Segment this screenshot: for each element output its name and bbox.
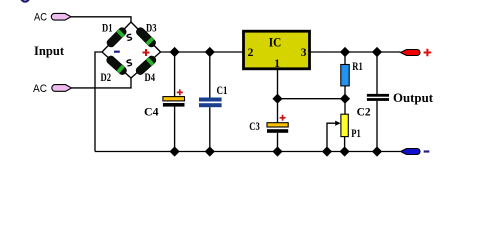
capacitor C1 (blue plates) [199,98,222,108]
wire: junction down to potentiometer P1 [344,99,346,115]
wire: AC bottom terminal to bridge bottom vertex [72,78,132,88]
node: junction P1 bottom rail [340,146,350,156]
plus symbol (bridge positive vertex) [143,49,150,56]
node: junction C3 bottom rail [272,146,282,156]
wire: R1 bottom lead [344,86,346,99]
resistor R1 (blue body) [341,65,349,86]
terminal AC top (pink connector) [51,13,71,20]
wire: P1 wiper to bottom rail [327,123,338,151]
svg-text:D4: D4 [145,72,156,84]
node: junction at C4 top [170,47,180,57]
wire: bridge diamond (D1-D4 arms) [102,22,161,78]
wire: C1 to bottom rail [209,107,211,151]
svg-text:C4: C4 [144,107,159,119]
wire: IC pin 1 down to C3 [277,69,279,123]
diode D4 (body, cathode band toward right vertex) [135,54,158,76]
wire: bridge minus vertex left stub and down to bottom rail [95,52,102,152]
diode D3 (body, cathode band toward right vertex) [135,26,157,48]
node: junction C4 bottom rail [170,146,180,156]
svg-text:D3: D3 [146,23,157,35]
svg-text:AC: AC [33,83,47,95]
potentiometer P1 (yellow body) [341,114,348,136]
plus mark C4 [177,89,183,95]
plus mark C3 [280,115,286,121]
svg-text:D1: D1 [102,23,113,35]
wire: bridge + vertex to IC pin 2 (top rail) [161,51,244,53]
plus mark output [424,49,432,57]
wire: adjust node to IC pin 1 column [278,98,346,100]
terminal output - (blue connector) [401,149,421,155]
node: junction at C1 top [205,47,215,57]
wire: C4 to bottom rail [174,107,176,152]
terminal AC bottom (pink connector) [52,85,72,92]
minus mark output [424,150,430,152]
svg-text:C2: C2 [357,106,371,118]
svg-text:Output: Output [393,91,434,105]
wire: R1 top lead [344,52,346,65]
svg-text:IC: IC [269,35,282,49]
node: junction C2 bottom rail [372,146,382,156]
AC tilde symbol (top, inside bridge) [127,34,132,40]
svg-text:3: 3 [301,47,307,59]
terminal output + (red connector) [401,50,421,56]
diode D1 (body, cathode band toward top vertex) [105,26,127,48]
node: junction R1/P1 [340,94,350,104]
AC tilde symbol (bottom, inside bridge) [127,60,132,66]
svg-text:C1: C1 [217,85,228,97]
wire: C2 to bottom rail [376,101,378,152]
wire: C4 branch down [174,52,176,97]
node: junction C1 bottom rail [205,146,215,156]
wire: bottom rail (0V) [95,151,400,153]
wire: C3 to bottom rail [277,133,279,152]
svg-text:C3: C3 [249,121,260,133]
svg-text:AC: AC [34,11,47,23]
node: junction wiper bottom rail [322,146,332,156]
capacitor C3 (electrolytic, + top plate) [267,123,288,133]
diode D2 (body, cathode band toward bottom vertex) [105,54,128,76]
svg-text:D2: D2 [101,72,112,84]
svg-text:Input: Input [34,44,65,58]
wire: C1 branch down [209,52,211,98]
IC U1 (voltage regulator box) [244,31,310,69]
svg-text:R1: R1 [352,61,363,73]
svg-text:1: 1 [274,58,280,70]
logo arc (top-left partial circle) [21,0,29,2]
node: junction at C2 top [372,47,382,57]
wiper arrowhead [335,121,341,126]
wire: AC top terminal to bridge top vertex [71,17,131,22]
wire: C2 branch down [376,52,378,94]
svg-text:P1: P1 [351,128,361,140]
capacitor C2 (plates) [367,94,389,101]
wire: IC pin 3 to output rail [310,51,401,53]
node: junction pin1/C3 [272,94,282,104]
capacitor C4 (electrolytic, + top plate) [163,97,185,107]
node: junction at R1 top [340,47,350,57]
minus symbol (bridge negative vertex) [114,51,120,53]
svg-text:2: 2 [248,47,254,59]
wire: P1 bottom lead to rail [344,137,346,152]
